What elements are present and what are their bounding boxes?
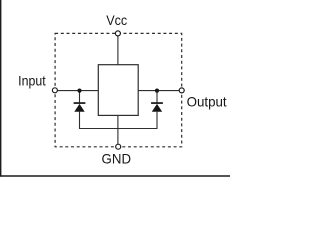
IC block rectangle	[98, 65, 138, 116]
wire right diode cathode leg	[156, 91, 158, 103]
diode D1 (left, cathode up)	[74, 102, 86, 112]
wire Vcc vertical	[117, 36, 119, 65]
wire GND vertical	[117, 115, 119, 144]
wire Input horizontal	[57, 90, 98, 92]
svg-text:GND: GND	[102, 151, 132, 167]
terminal Output	[179, 88, 184, 93]
diode D2 (right, cathode up)	[151, 102, 163, 112]
terminal Input	[52, 88, 57, 93]
svg-text:Output: Output	[187, 94, 227, 110]
wire left diode cathode leg	[79, 91, 81, 103]
wire bottom rail	[80, 128, 158, 130]
wire right diode anode leg	[156, 112, 158, 129]
terminal GND	[116, 144, 121, 149]
svg-text:Input: Input	[18, 73, 46, 89]
svg-text:Vcc: Vcc	[106, 12, 127, 28]
wire Output horizontal	[138, 90, 179, 92]
dashed package outline	[55, 33, 182, 146]
terminal Vcc	[115, 31, 120, 36]
junction dot left	[77, 89, 81, 93]
page frame left border	[0, 0, 2, 177]
junction dot right	[155, 89, 159, 93]
wire left diode anode leg	[79, 112, 81, 129]
page frame bottom border	[0, 175, 230, 177]
